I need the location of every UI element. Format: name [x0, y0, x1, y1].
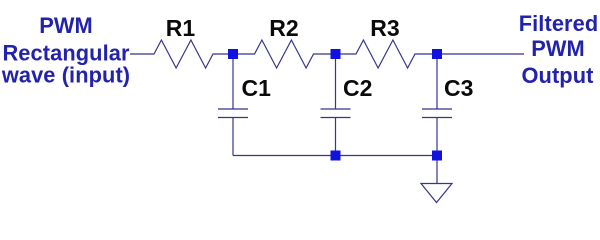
svg-text:PWM: PWM: [39, 13, 93, 38]
svg-text:C2: C2: [343, 75, 372, 101]
svg-text:R3: R3: [370, 15, 399, 41]
svg-text:Rectangular: Rectangular: [2, 40, 129, 65]
svg-text:R1: R1: [166, 15, 196, 41]
svg-text:wave (input): wave (input): [1, 63, 130, 88]
svg-text:C1: C1: [242, 75, 272, 101]
svg-text:R2: R2: [269, 15, 298, 41]
svg-text:Filtered: Filtered: [519, 11, 599, 36]
svg-text:Output: Output: [521, 63, 593, 88]
svg-text:PWM: PWM: [531, 36, 585, 61]
svg-text:C3: C3: [444, 75, 473, 101]
